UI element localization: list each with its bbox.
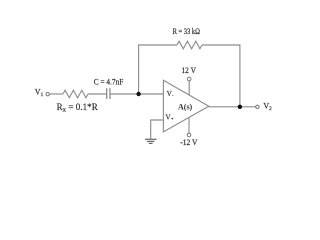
terminal +12V [187, 77, 191, 81]
svg-text:A(s): A(s) [178, 103, 193, 112]
terminal V2 [256, 105, 259, 108]
svg-text:R = 33 kΩ: R = 33 kΩ [173, 27, 200, 36]
wire: op-amp output to V2 terminal [209, 106, 256, 108]
wire: capacitor to op-amp inverting input [111, 93, 164, 95]
wire: non-inverting input to ground [151, 120, 164, 139]
resistor R = 33 kOhm [177, 41, 202, 49]
wire: feedback left vertical [138, 45, 140, 94]
terminal -12V [187, 133, 191, 137]
svg-text:V1: V1 [35, 88, 44, 98]
svg-text:Rx = 0.1*R: Rx = 0.1*R [57, 102, 98, 113]
svg-text:V-: V- [167, 89, 174, 99]
svg-text:-12 V: -12 V [180, 138, 197, 147]
svg-text:12 V: 12 V [181, 66, 196, 75]
terminal V1 [46, 93, 49, 96]
node B (output junction) [238, 105, 242, 109]
resistor Rx = 0.1*R [63, 90, 88, 98]
svg-text:V2: V2 [263, 102, 272, 112]
wire: Rx to capacitor C [88, 93, 106, 95]
node A (feedback / input junction) [136, 92, 140, 96]
wire: negative supply pin [188, 118, 190, 133]
wire: feedback top left segment [138, 44, 177, 46]
wire: V1 terminal to Rx [50, 93, 63, 95]
op-amp U1 triangle [163, 80, 208, 132]
capacitor C = 4.7nF plates [106, 88, 108, 99]
wire: positive supply pin [188, 81, 190, 95]
ground [145, 139, 157, 143]
svg-text:V+: V+ [165, 113, 173, 123]
wire: feedback right vertical [239, 45, 241, 107]
svg-text:C = 4.7nF: C = 4.7nF [94, 77, 124, 86]
wire: feedback top right segment [202, 44, 240, 46]
